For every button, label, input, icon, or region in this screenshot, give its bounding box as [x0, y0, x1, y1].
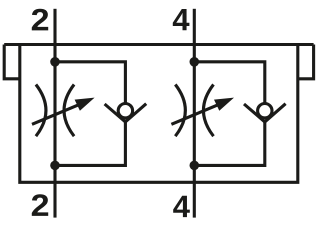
port line 2 (bottom)	[53, 182, 56, 217]
check valve ball (right)	[258, 104, 272, 118]
check valve seat (left)	[105, 104, 147, 122]
wire: right valve main vertical	[193, 45, 196, 183]
valve body outline	[4, 45, 313, 183]
wire: left valve bypass loop	[55, 62, 125, 166]
throttle arcs (right valve)	[175, 85, 213, 137]
port label 2 (bottom)	[32, 194, 48, 216]
arrow head (left valve)	[75, 98, 95, 111]
junction dot right-bottom	[190, 161, 200, 171]
port line 2 (top)	[53, 9, 56, 45]
junction dot left-top	[50, 57, 60, 67]
junction dot left-bottom	[50, 161, 60, 171]
adjustment arrow shaft (right valve)	[171, 105, 217, 124]
throttle arcs (left valve)	[36, 85, 74, 137]
arrow head (right valve)	[214, 98, 234, 111]
wire: left valve main vertical	[53, 45, 56, 183]
port line 4 (top)	[193, 9, 196, 45]
check valve ball (left)	[118, 104, 132, 118]
check valve seat (right)	[244, 104, 286, 122]
port label 4 (top)	[173, 9, 190, 30]
adjustment arrow shaft (left valve)	[32, 105, 78, 124]
port line 4 (bottom)	[193, 182, 196, 217]
port label 4 (bottom)	[173, 196, 190, 217]
port label 2 (top)	[32, 9, 48, 31]
wire: right valve bypass loop	[194, 62, 264, 166]
junction dot right-top	[190, 57, 200, 67]
